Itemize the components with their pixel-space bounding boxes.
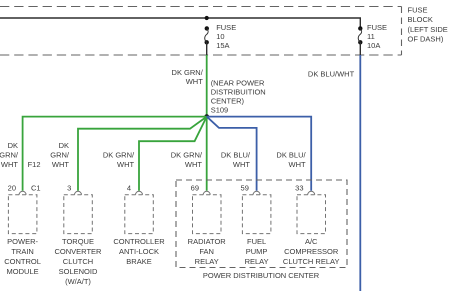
label DK GRN/WHT (fuse10 wire) — [172, 68, 204, 86]
svg-text:FUSE: FUSE — [216, 23, 236, 32]
svg-text:FUEL: FUEL — [247, 237, 266, 246]
svg-text:BRAKE: BRAKE — [126, 257, 151, 266]
svg-text:20: 20 — [8, 183, 16, 192]
connector pin 20 C1 of powertrain control module — [8, 183, 41, 233]
svg-text:15A: 15A — [216, 41, 229, 50]
svg-text:DK: DK — [8, 141, 18, 150]
fuse block bottom dashed border — [0, 54, 402, 56]
svg-text:MODULE: MODULE — [7, 267, 39, 276]
label FUEL PUMP RELAY — [245, 237, 269, 266]
svg-text:WHT: WHT — [233, 160, 250, 169]
svg-text:C1: C1 — [31, 183, 41, 192]
label DK GRN/WHT F12 (branch to PCM) — [0, 141, 41, 169]
label DK GRN/WHT (branch to radiator fan relay) — [171, 150, 203, 169]
wire DK BLU/WHT from fuse11 down past bottom — [359, 55, 361, 291]
label POWER-TRAIN CONTROL MODULE — [4, 237, 41, 276]
wire green branch to controller anti-lock brake (pin 4) — [139, 117, 207, 191]
label CONTROLLER ANTI-LOCK BRAKE — [113, 237, 165, 266]
svg-text:DISTRIBUITION: DISTRIBUITION — [211, 88, 266, 97]
fuse F11 symbol — [358, 26, 362, 44]
svg-text:(W/A/T): (W/A/T) — [65, 277, 91, 286]
svg-text:11: 11 — [367, 32, 375, 41]
svg-text:POWER DISTRIBUTION CENTER: POWER DISTRIBUTION CENTER — [203, 271, 320, 280]
svg-text:3: 3 — [67, 183, 71, 192]
svg-text:PUMP: PUMP — [246, 247, 268, 256]
svg-text:RELAY: RELAY — [245, 257, 269, 266]
connector pin 4 of controller anti-lock brake — [125, 183, 154, 233]
label (NEAR POWER DISTRIBUITION CENTER) S109 — [211, 79, 266, 115]
wire fuse11 lead (black inside fuse block) — [359, 42, 361, 55]
svg-text:DK BLU/WHT: DK BLU/WHT — [308, 70, 355, 79]
wire bus feed (hot) — [0, 18, 360, 28]
svg-text:FUSE: FUSE — [408, 6, 428, 15]
svg-text:59: 59 — [241, 183, 249, 192]
wire green branch to torque converter clutch solenoid (pin 3) — [78, 117, 207, 191]
node junction at fuse 10 tap — [205, 16, 209, 20]
wire blue branch to A/C compressor clutch relay (pin 33) — [207, 117, 312, 191]
svg-text:DK BLU/: DK BLU/ — [221, 150, 251, 159]
label FUSE BLOCK (LEFT SIDE OF DASH) — [408, 6, 448, 44]
svg-text:WHT: WHT — [1, 160, 18, 169]
svg-text:RADIATOR: RADIATOR — [188, 237, 227, 246]
svg-text:CLUTCH RELAY: CLUTCH RELAY — [283, 257, 340, 266]
fuse F10 symbol — [205, 26, 210, 44]
wire fuse10 lead (black inside fuse block) — [206, 42, 208, 55]
fuse block top dashed border — [0, 6, 402, 8]
connector pin 59 of fuel pump relay — [241, 183, 271, 233]
svg-text:RELAY: RELAY — [195, 257, 219, 266]
svg-text:A/C: A/C — [305, 237, 318, 246]
label DK GRN/WHT (branch to torque conv) — [50, 141, 70, 169]
connector pin 3 of torque converter clutch solenoid — [64, 183, 93, 233]
svg-text:CONVERTER: CONVERTER — [55, 247, 103, 256]
svg-text:F12: F12 — [28, 160, 41, 169]
svg-text:POWER-: POWER- — [7, 237, 38, 246]
svg-text:FUSE: FUSE — [367, 23, 387, 32]
svg-text:DK BLU/: DK BLU/ — [276, 150, 306, 159]
label TORQUE CONVERTER CLUTCH SOLENOID (W/A/T) — [55, 237, 103, 286]
svg-text:CONTROLLER: CONTROLLER — [113, 237, 165, 246]
svg-text:DK GRN/: DK GRN/ — [171, 150, 203, 159]
svg-text:FAN: FAN — [199, 247, 214, 256]
label A/C COMPRESSOR CLUTCH RELAY — [283, 237, 340, 266]
svg-text:DK GRN/: DK GRN/ — [172, 68, 204, 77]
svg-text:COMPRESSOR: COMPRESSOR — [284, 247, 339, 256]
svg-text:WHT: WHT — [185, 160, 202, 169]
label FUSE 10 15A — [216, 23, 236, 50]
splice node S109 — [204, 114, 209, 119]
svg-text:BLOCK: BLOCK — [408, 15, 433, 24]
svg-text:SOLENOID: SOLENOID — [59, 267, 98, 276]
svg-text:69: 69 — [191, 183, 199, 192]
svg-text:CENTER): CENTER) — [211, 97, 245, 106]
wire blue branch to fuel pump relay (pin 59) — [207, 117, 257, 191]
svg-text:CLUTCH: CLUTCH — [63, 257, 93, 266]
svg-text:(NEAR POWER: (NEAR POWER — [211, 79, 265, 88]
wire green branch to PCM (pin 20) — [23, 117, 207, 191]
svg-text:10: 10 — [216, 32, 224, 41]
wire DK GRN/WHT from fuse10 to splice S109 — [206, 55, 208, 117]
fuse block right dashed border — [401, 7, 403, 56]
connector pin 33 of A/C compressor clutch relay — [295, 183, 325, 233]
svg-text:33: 33 — [295, 183, 303, 192]
label DK BLU/WHT (branch to A/C relay) — [276, 150, 306, 169]
wire green branch to radiator fan relay (pin 69) — [206, 117, 208, 191]
label FUSE 11 10A — [367, 23, 387, 50]
svg-text:10A: 10A — [367, 41, 380, 50]
svg-text:TRAIN: TRAIN — [11, 247, 34, 256]
svg-text:WHT: WHT — [186, 77, 203, 86]
power distribution center dashed box — [176, 180, 347, 268]
svg-text:CONTROL: CONTROL — [4, 257, 41, 266]
svg-text:TORQUE: TORQUE — [62, 237, 94, 246]
svg-text:(LEFT SIDE: (LEFT SIDE — [408, 25, 448, 34]
svg-text:GRN/: GRN/ — [0, 150, 19, 159]
svg-text:WHT: WHT — [289, 160, 306, 169]
label RADIATOR FAN RELAY — [188, 237, 227, 266]
svg-text:GRN/: GRN/ — [50, 150, 70, 159]
label DK GRN/WHT (branch to CAB) — [103, 150, 135, 169]
svg-text:ANTI-LOCK: ANTI-LOCK — [119, 247, 159, 256]
svg-text:S109: S109 — [211, 105, 229, 114]
svg-text:OF DASH): OF DASH) — [408, 35, 444, 44]
svg-text:WHT: WHT — [117, 160, 134, 169]
svg-text:DK GRN/: DK GRN/ — [103, 150, 135, 159]
svg-text:4: 4 — [127, 183, 131, 192]
svg-text:WHT: WHT — [52, 160, 69, 169]
connector pin 69 of radiator fan relay — [191, 183, 221, 233]
svg-text:DK: DK — [59, 141, 69, 150]
label DK BLU/WHT (branch to fuel pump relay) — [221, 150, 251, 169]
